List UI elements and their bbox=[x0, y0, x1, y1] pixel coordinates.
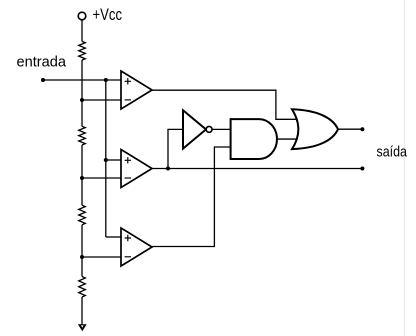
svg-text:saída: saída bbox=[377, 144, 408, 161]
svg-text:+Vcc: +Vcc bbox=[93, 5, 123, 24]
svg-text:entrada: entrada bbox=[17, 54, 67, 71]
